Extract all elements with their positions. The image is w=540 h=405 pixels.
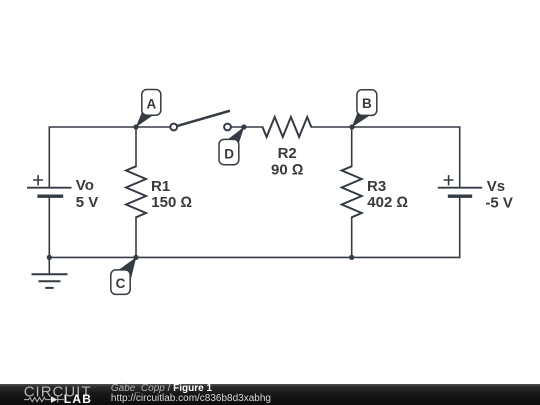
node flag A (136, 90, 161, 128)
wire Vs bottom to bottom rail corner (459, 196, 461, 257)
svg-text:90 Ω: 90 Ω (271, 161, 303, 178)
wire top-left rail (49, 127, 136, 188)
wire node A to switch left terminal (136, 126, 170, 128)
resistor R1 body (126, 166, 146, 217)
svg-text:5 V: 5 V (76, 194, 99, 211)
wire R1 bottom to node C (135, 217, 137, 257)
svg-text:Vo: Vo (76, 177, 94, 194)
node flag C (111, 257, 137, 294)
wire R2 to node B (311, 126, 352, 128)
CircuitLab logo diode triangle (51, 396, 58, 403)
svg-text:R1: R1 (151, 178, 170, 195)
junction R3 bottom (349, 255, 354, 260)
svg-text:-5 V: -5 V (485, 195, 513, 212)
svg-text:Vs: Vs (487, 178, 505, 195)
wire bottom rail (49, 256, 459, 258)
switch SW1 arm (177, 111, 229, 126)
ground (32, 257, 68, 288)
node flag D (219, 127, 244, 165)
label R3 value (367, 178, 408, 211)
switch left terminal circle (170, 124, 177, 131)
svg-text:402 Ω: 402 Ω (367, 194, 408, 211)
label Vs value (485, 178, 513, 211)
junction node D (241, 124, 246, 129)
node flag B (352, 90, 377, 128)
junction bottom-left (47, 255, 52, 260)
svg-text:B: B (362, 96, 372, 111)
battery source Vs (438, 175, 482, 196)
svg-text:R2: R2 (278, 145, 297, 162)
wire node B to right rail down to Vs (352, 127, 460, 188)
junction node C (133, 255, 138, 260)
junction node B (349, 124, 354, 129)
svg-text:R3: R3 (367, 178, 386, 195)
svg-text:150 Ω: 150 Ω (151, 194, 192, 211)
svg-text:A: A (147, 96, 157, 111)
svg-text:D: D (224, 146, 234, 161)
resistor R3 body (342, 166, 362, 217)
wire node B down to R3 (351, 127, 353, 166)
wire node A down to R1 (135, 127, 137, 166)
svg-text:C: C (116, 276, 126, 291)
label R2 value (271, 145, 303, 179)
battery source Vo (27, 175, 72, 196)
junction node A (133, 124, 138, 129)
CircuitLab logo wire motif (24, 397, 64, 403)
wire Vo bottom to bottom rail (48, 196, 50, 257)
wire R3 bottom to bottom rail (351, 217, 353, 257)
label R1 value (151, 178, 192, 211)
svg-text:LAB: LAB (64, 392, 92, 405)
label Vo value (76, 177, 99, 211)
resistor R2 body (263, 117, 312, 137)
switch right terminal circle (224, 124, 231, 131)
svg-text:http://circuitlab.com/c836b8d3: http://circuitlab.com/c836b8d3xabhg (111, 393, 271, 404)
wire switch right terminal to R2 (231, 126, 262, 128)
